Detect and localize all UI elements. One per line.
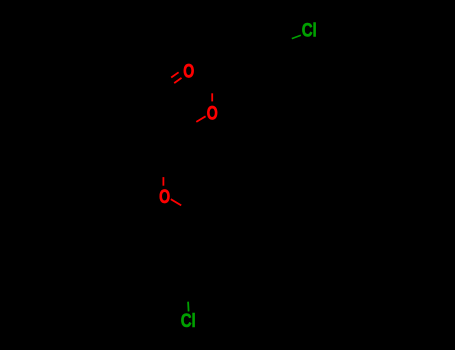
- svg-text:O: O: [207, 104, 218, 125]
- bond stub O3 to ring carbon (vertical): [162, 177, 164, 186]
- aldehyde C=O double bond stub upper line: [171, 72, 178, 77]
- bond stub O2 to benzyl CH2 (vertical): [211, 93, 213, 101]
- bond stub Cl2 to ring carbon (vertical): [187, 302, 190, 312]
- svg-text:Cl: Cl: [181, 311, 196, 332]
- aldehyde C=O double bond stub lower line: [174, 78, 181, 83]
- bond stub O3 to benzyl CH2 (down-right): [171, 199, 181, 205]
- bond stub O2 to ring carbon (down-left): [196, 116, 205, 122]
- svg-text:O: O: [183, 62, 194, 83]
- svg-text:Cl: Cl: [302, 20, 317, 41]
- bond stub Cl1 to ring carbon (down-left): [292, 35, 301, 38]
- svg-text:O: O: [159, 187, 170, 208]
